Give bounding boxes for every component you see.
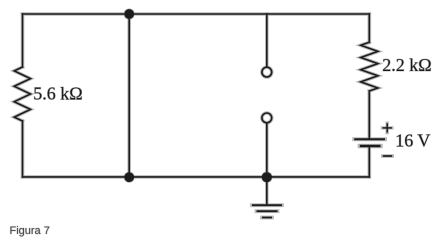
caption Figura 7 (10, 225, 50, 237)
resistor R1 5.6 kOhm (14, 67, 30, 121)
wire ground lead (266, 177, 268, 205)
svg-text:16 V: 16 V (395, 130, 430, 150)
wire middle branch (128, 14, 130, 177)
switch S1 terminal upper (262, 67, 272, 77)
resistor R2 2.2 kOhm (361, 42, 378, 91)
svg-text:5.6 kΩ: 5.6 kΩ (33, 84, 82, 104)
soft halo underlay (decorative blur emulation) (14, 8, 392, 217)
battery plus sign (383, 123, 392, 132)
switch S1 terminal lower (262, 113, 272, 123)
wire switch lower lead (266, 123, 268, 177)
svg-text:2.2 kΩ: 2.2 kΩ (382, 55, 431, 75)
wire right upper (368, 14, 370, 42)
battery V1 plate short (360, 145, 381, 147)
wire switch upper lead (266, 14, 268, 67)
wire left upper (22, 14, 24, 67)
battery minus sign (383, 155, 392, 157)
wire top rail (23, 13, 370, 15)
wire bottom rail (23, 176, 370, 178)
node C junction dot bottom-middle (262, 172, 272, 182)
node B junction dot bottom-left (124, 172, 134, 182)
wire left lower (22, 121, 24, 177)
node A junction dot top (124, 9, 134, 19)
battery V1 plate long (354, 138, 385, 140)
wire right lower (368, 146, 370, 177)
ground (252, 205, 282, 217)
wire right middle (368, 91, 370, 139)
